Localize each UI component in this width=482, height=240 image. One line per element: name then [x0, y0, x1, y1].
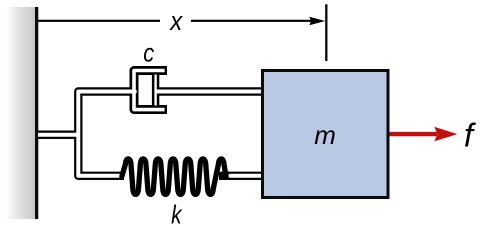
svg-text:c: c: [143, 39, 154, 68]
wire: wall stub (white core): [38, 133, 78, 137]
svg-text:m: m: [314, 120, 336, 150]
wire: spring right rod (white core): [230, 174, 261, 178]
wire: left member white core: [78, 92, 135, 176]
damper c: cylinder (black outline): [134, 71, 167, 110]
wire: damper right rod (white core): [156, 90, 262, 94]
damper c: piston plate (white core): [154, 75, 156, 106]
wall (fixed support): [8, 7, 39, 219]
damper c: piston plate (black outline): [152, 73, 159, 106]
svg-text:k: k: [171, 200, 182, 227]
spring k: coil: [122, 159, 226, 194]
mass m: block: [263, 71, 389, 198]
wire: damper right rod (black outline): [153, 87, 263, 95]
wire: wall stub (black outline): [38, 131, 78, 139]
wire: left member + damper/spring left rods (black outline): [78, 92, 135, 176]
wire: spring right rod (black outline): [219, 172, 263, 180]
damper c: cylinder (white core): [134, 71, 165, 110]
svg-text:x: x: [169, 7, 183, 36]
dimension line x: [38, 4, 326, 61]
force arrow f: [390, 127, 458, 142]
